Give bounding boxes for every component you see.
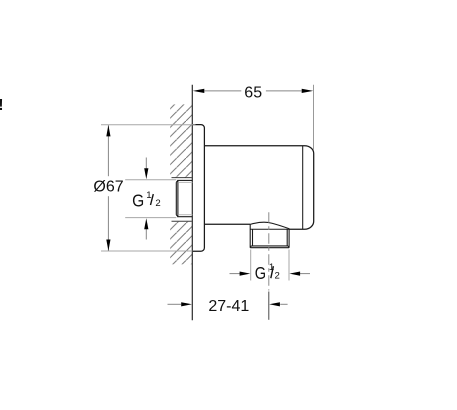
dimension 65 arrowheads <box>193 89 205 93</box>
body outline <box>204 146 313 230</box>
svg-text:1: 1 <box>146 190 151 201</box>
outlet G1/2 arrows <box>230 273 241 275</box>
wall niche bottom edge <box>172 220 192 222</box>
svg-text:G: G <box>255 263 266 283</box>
body bottom edge (left of outlet) <box>204 223 250 225</box>
wall niche top edge <box>172 177 192 179</box>
outlet nipple thread G1/2 <box>250 224 289 247</box>
outlet boss shoulder curve <box>250 222 289 229</box>
centerline extension bar for 27-41 <box>268 292 270 320</box>
svg-text:2: 2 <box>155 198 160 209</box>
inlet thread G1/2 (behind wall) <box>176 180 192 216</box>
wall face line / left extension line of dims <box>191 85 193 320</box>
inlet G1/2 extension lines <box>125 179 176 181</box>
svg-text:G: G <box>132 191 144 211</box>
outlet G1/2 extension lines <box>250 250 252 281</box>
inlet G1/2 arrows <box>145 158 147 170</box>
svg-text:27-41: 27-41 <box>208 298 249 315</box>
wall hatch upper section <box>170 104 192 177</box>
svg-text:65: 65 <box>244 85 262 102</box>
dimension Ø67 extension lines <box>101 124 196 126</box>
dimension 65 extension line (right) <box>313 85 315 150</box>
body end face line <box>302 146 304 230</box>
dimension 27-41 line and arrows <box>168 303 182 305</box>
dimension Ø67 arrowheads <box>106 125 110 136</box>
wall hatch lower section <box>170 222 192 265</box>
svg-text:2: 2 <box>275 271 280 282</box>
dimension Ø67 line <box>107 125 109 176</box>
inlet thread shading <box>178 182 192 214</box>
svg-text:Ø67: Ø67 <box>93 179 123 196</box>
flange (escutcheon) <box>192 125 204 252</box>
svg-text:!: ! <box>0 97 3 114</box>
outlet centerline (dashed) <box>268 212 270 290</box>
dimension 65 line <box>204 90 241 92</box>
